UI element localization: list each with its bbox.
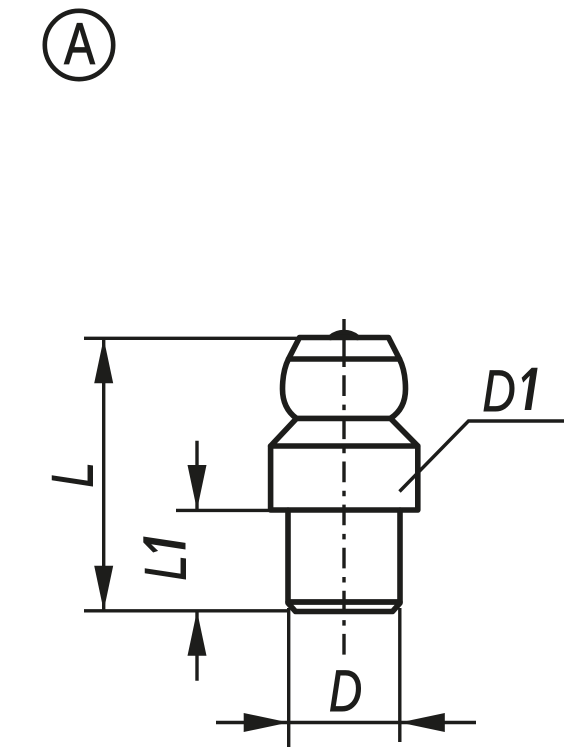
svg-text:D: D	[329, 659, 362, 725]
arrow L bottom	[94, 566, 113, 611]
label D1	[483, 359, 538, 425]
bottom extension line (shared by L and L1)	[84, 609, 289, 612]
L1 extension line	[176, 509, 269, 512]
svg-text:L: L	[40, 462, 106, 488]
arrow L top	[94, 338, 113, 383]
D right extension line	[398, 608, 401, 742]
svg-text:A: A	[64, 12, 95, 78]
D left extension line	[287, 608, 290, 747]
svg-text:D: D	[483, 359, 516, 425]
view label circle A	[45, 11, 113, 79]
ball cap line	[289, 356, 400, 362]
arrow L1 top (points down)	[188, 465, 207, 510]
arrow D right (points left)	[400, 713, 445, 732]
dimension L line	[102, 338, 105, 611]
grease nipple outline	[271, 333, 418, 612]
leader line D1	[400, 421, 565, 492]
svg-text:L: L	[133, 555, 199, 581]
arrow D left (points right)	[244, 713, 289, 732]
threaded shaft	[288, 510, 400, 612]
L1 upper dim line	[195, 441, 198, 510]
ball waist line	[297, 416, 391, 422]
ball head bump arc	[331, 333, 358, 338]
shaft thread end line	[288, 599, 400, 605]
centerline	[342, 319, 345, 360]
label L1 (rotated)	[133, 537, 199, 581]
L top extension line	[84, 337, 299, 340]
arrow L1 bottom (points up)	[188, 611, 207, 656]
L1 lower dim line	[195, 611, 198, 681]
dimension lines	[84, 338, 564, 747]
hex top line	[271, 443, 418, 449]
D dimension line	[216, 721, 476, 724]
head outline: cap + ball + cone + hex	[271, 338, 418, 511]
